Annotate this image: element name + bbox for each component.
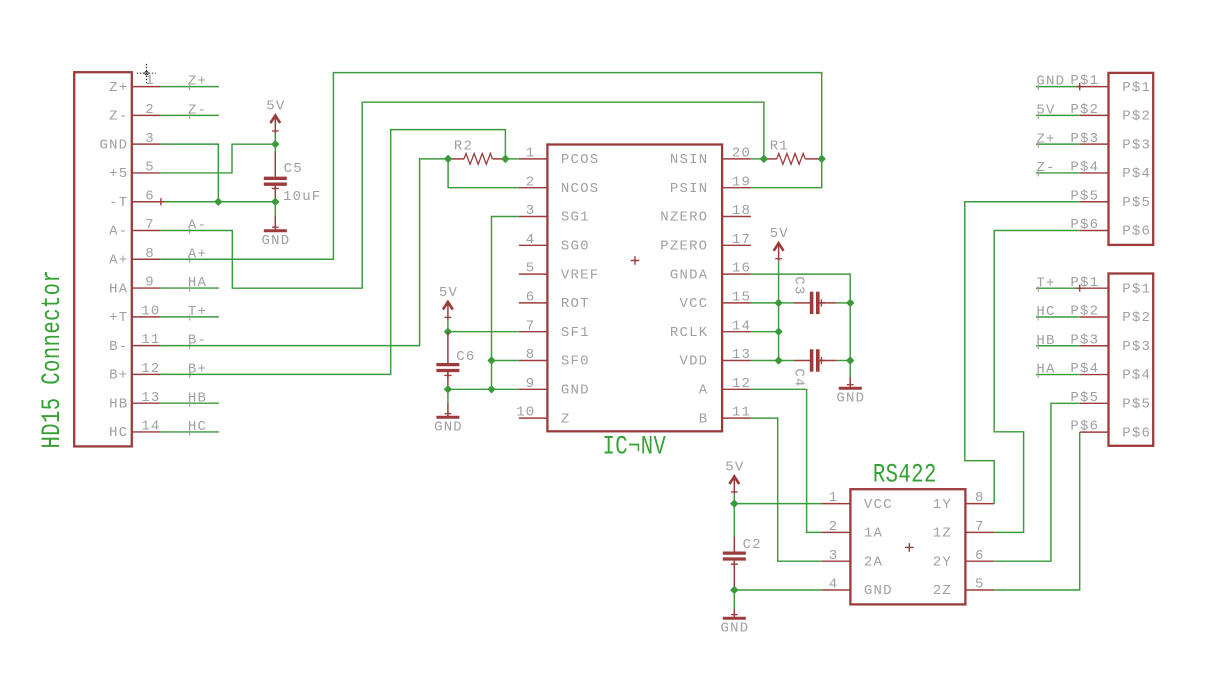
svg-text:2Y: 2Y (933, 554, 952, 570)
IC pin 17 (PZERO) (660, 232, 751, 255)
IC pin 13 (VDD) (679, 347, 751, 370)
svg-text:VCC: VCC (679, 296, 708, 312)
HD15 pin 14 (HC) (109, 419, 161, 442)
IC pin 8 (SF0) (519, 347, 590, 370)
RS422 pin 7 (1Z) (933, 519, 994, 542)
SV1 pin P$5 (1070, 188, 1151, 211)
ground symbol (C5) (262, 202, 291, 249)
junction C5 top (272, 141, 279, 148)
IC pin 16 (GNDA) (670, 261, 751, 284)
IC pin 10 (Z) (516, 405, 570, 428)
wire -T pin6 to C5 bottom (157, 198, 275, 205)
svg-text:NZERO: NZERO (660, 210, 708, 226)
SV2 pin P$3 (1070, 332, 1151, 355)
junction C6 top (444, 328, 451, 335)
svg-text:P$3: P$3 (1122, 137, 1151, 153)
IC pin 20 (NSIN) (670, 146, 751, 169)
net label B+ (188, 362, 207, 379)
IC title IC¬NV (603, 432, 667, 462)
junction VDD rail (775, 357, 782, 364)
svg-text:19: 19 (732, 174, 751, 190)
svg-text:20: 20 (732, 146, 751, 162)
net stub HB (161, 402, 219, 404)
capacitor C3 (779, 276, 851, 314)
svg-text:Z-: Z- (188, 102, 207, 118)
net label A+ (188, 246, 207, 263)
svg-text:2Z: 2Z (933, 583, 952, 599)
svg-text:Z-: Z- (109, 109, 128, 125)
connector HD15 title (38, 270, 68, 449)
svg-text:14: 14 (732, 318, 751, 334)
svg-text:5: 5 (145, 160, 155, 176)
resistor R1 (764, 138, 822, 164)
svg-text:VCC: VCC (864, 497, 893, 513)
IC pin 11 (B) (699, 405, 751, 428)
svg-text:VDD: VDD (679, 354, 708, 370)
IC pin 18 (NZERO) (660, 203, 751, 226)
IC pin 2 (NCOS) (519, 174, 599, 197)
capacitor C4 (779, 349, 851, 387)
svg-text:A+: A+ (109, 252, 128, 268)
connector HD15 body (74, 72, 132, 446)
wire SF0 pin8 link (492, 360, 519, 362)
svg-text:P$5: P$5 (1122, 397, 1151, 413)
junction VCC rail (775, 299, 782, 306)
net label HC (SV2) (1036, 304, 1055, 321)
wire VDD pin13 link (751, 360, 779, 362)
svg-text:R1: R1 (770, 138, 789, 154)
connector SV1 body (1109, 73, 1154, 245)
svg-text:P$2: P$2 (1122, 310, 1151, 326)
svg-text:T+: T+ (188, 304, 207, 320)
svg-text:5V: 5V (1036, 102, 1055, 118)
net label HA (SV2) (1036, 362, 1055, 379)
svg-text:P$6: P$6 (1122, 224, 1151, 240)
svg-text:1: 1 (829, 490, 839, 506)
svg-text:1Y: 1Y (933, 497, 952, 513)
svg-text:4: 4 (829, 577, 839, 593)
svg-text:9: 9 (145, 275, 155, 291)
svg-text:+T: +T (109, 310, 128, 326)
svg-text:-T: -T (109, 195, 128, 211)
wire GNDA pin16 to cap rail (751, 274, 850, 303)
net stub HA (161, 287, 219, 289)
wire SV1 P$6 to RS422 1Z (994, 231, 1079, 533)
svg-text:18: 18 (732, 203, 751, 219)
SV1 pin P$1 (1070, 73, 1151, 96)
svg-text:3: 3 (145, 131, 155, 147)
IC RS422 body (850, 489, 965, 604)
svg-text:Z+: Z+ (109, 80, 128, 96)
net stub Z+ (SV1) (1036, 143, 1080, 145)
pin mark SV1 P$1 (1076, 83, 1083, 90)
svg-text:8: 8 (526, 347, 536, 363)
svg-text:7: 7 (526, 318, 536, 334)
svg-text:7: 7 (975, 519, 985, 535)
net stub HA (SV2) (1036, 374, 1080, 376)
svg-text:1: 1 (526, 146, 536, 162)
junction GND pin9 riser (488, 386, 495, 393)
net label Z+ (SV1) (1036, 131, 1055, 148)
net label Z- (SV1) (1036, 160, 1055, 177)
svg-text:2A: 2A (864, 554, 883, 570)
wire B+ pin12 to R2 right node (161, 130, 506, 375)
svg-text:P$4: P$4 (1122, 166, 1151, 182)
svg-text:HB: HB (188, 390, 207, 406)
SV2 pin P$4 (1070, 361, 1151, 384)
wire IC pin20 to R1 left (751, 158, 764, 160)
power 5V (C6) (439, 285, 458, 320)
wire 5V to RS422 VCC (734, 494, 821, 503)
svg-text:17: 17 (732, 232, 751, 248)
wire C2 bottom to RS422 GND (734, 589, 821, 591)
SV2 pin P$1 (1070, 275, 1151, 298)
HD15 pin 8 (A+) (109, 246, 161, 269)
capacitor C6 (436, 332, 475, 389)
IC pin 1 (PCOS) (519, 146, 599, 169)
junction C5 bottom (272, 198, 279, 205)
net stub HB (SV2) (1036, 345, 1080, 347)
svg-text:6: 6 (526, 290, 536, 306)
net stub GND (SV1) (1036, 86, 1080, 88)
svg-text:1Z: 1Z (933, 526, 952, 542)
svg-text:2: 2 (829, 519, 839, 535)
HD15 pin 12 (B+) (109, 361, 161, 384)
wire 5V to C5 node (274, 134, 276, 145)
net label HC (188, 419, 207, 436)
wire R1 right to IC pin19 (751, 159, 822, 188)
svg-text:11: 11 (141, 332, 160, 348)
RS422 pin 4 (GND) (822, 577, 893, 600)
svg-text:HA: HA (188, 275, 207, 291)
net stub T+ (SV2) (1036, 287, 1080, 289)
IC pin 14 (RCLK) (670, 318, 751, 341)
svg-text:3: 3 (526, 203, 536, 219)
net label HB (188, 390, 207, 407)
HD15 pin 11 (B-) (109, 332, 161, 355)
svg-text:P$6: P$6 (1122, 425, 1151, 441)
wire GND pin9 link (448, 388, 519, 390)
svg-text:C5: C5 (284, 161, 303, 177)
HD15 pin 2 (Z-) (109, 102, 161, 125)
svg-text:HA: HA (1036, 362, 1055, 378)
power 5V (C5) (266, 99, 285, 134)
SV2 pin P$5 (1070, 390, 1151, 413)
HD15 pin 7 (A-) (109, 217, 161, 240)
RS422 pin 2 (1A) (822, 519, 884, 542)
svg-text:B-: B- (109, 339, 128, 355)
wire 5V rail down VCC/RCLK/VDD (778, 261, 780, 360)
svg-text:C4: C4 (790, 368, 806, 387)
junction R2 left (445, 155, 452, 162)
svg-text:P$1: P$1 (1122, 281, 1151, 297)
junction pin3 riser on -T wire (215, 198, 222, 205)
svg-text:16: 16 (732, 261, 751, 277)
svg-text:1: 1 (145, 73, 155, 89)
svg-text:5V: 5V (770, 226, 789, 242)
sheet origin marker (137, 64, 156, 83)
svg-text:5V: 5V (439, 285, 458, 301)
capacitor C2 (723, 504, 762, 589)
RS422 pin 6 (2Y) (933, 548, 994, 571)
IC pin 4 (SG0) (519, 232, 590, 255)
wire RCLK pin14 link (751, 331, 779, 333)
svg-text:HD15 Connector: HD15 Connector (38, 270, 68, 449)
svg-text:14: 14 (141, 419, 160, 435)
svg-text:RCLK: RCLK (670, 325, 708, 341)
HD15 pin 5 (+5) (109, 160, 161, 183)
net stub Z+ (161, 86, 219, 88)
svg-text:5: 5 (526, 261, 536, 277)
svg-text:SF1: SF1 (561, 325, 590, 341)
IC pin 9 (GND) (519, 376, 590, 399)
svg-text:VREF: VREF (561, 267, 599, 283)
svg-text:HB: HB (1036, 333, 1055, 349)
wire A+ pin8 to R1 right node (161, 73, 822, 260)
svg-text:GND: GND (836, 391, 865, 407)
ground symbol (C3/C4) (836, 377, 865, 407)
svg-text:HC: HC (188, 419, 207, 435)
net stub HC (161, 431, 219, 433)
svg-text:P$5: P$5 (1122, 195, 1151, 211)
svg-text:10uF: 10uF (283, 189, 321, 205)
SV2 pin P$2 (1070, 304, 1151, 327)
net label HA (188, 275, 207, 292)
svg-text:NCOS: NCOS (561, 181, 599, 197)
IC pin 7 (SF1) (519, 318, 590, 341)
ground symbol (C6) (434, 389, 463, 435)
SV2 pin P$6 (1070, 419, 1151, 442)
svg-text:PZERO: PZERO (660, 239, 708, 255)
svg-text:5: 5 (975, 577, 985, 593)
svg-text:HC: HC (1036, 304, 1055, 320)
HD15 pin 10 (+T) (109, 303, 161, 326)
svg-text:A: A (699, 383, 709, 399)
net label T+ (SV2) (1036, 275, 1055, 292)
net label GND (SV1) (1036, 74, 1065, 91)
svg-text:P$6: P$6 (1070, 419, 1099, 435)
IC pin 12 (A) (699, 376, 751, 399)
junction C4 right (847, 357, 854, 364)
svg-text:P$4: P$4 (1122, 368, 1151, 384)
wire SV2 P$6 to RS422 2Z (994, 432, 1079, 590)
junction C2 bottom (731, 587, 738, 594)
svg-text:10: 10 (516, 405, 535, 421)
IC title RS422 (873, 460, 937, 490)
svg-text:ROT: ROT (561, 296, 590, 312)
junction R2 right (502, 155, 509, 162)
IC U1 body (547, 145, 722, 432)
svg-text:5V: 5V (266, 99, 285, 115)
net stub 5V (SV1) (1036, 114, 1080, 116)
svg-text:2: 2 (145, 102, 155, 118)
svg-text:Z: Z (561, 411, 571, 427)
wire SV2 P$5 to RS422 2Y (994, 403, 1079, 561)
svg-text:B+: B+ (109, 368, 128, 384)
svg-text:HA: HA (109, 281, 128, 297)
resistor R2 (448, 138, 505, 164)
svg-text:SG1: SG1 (561, 210, 590, 226)
HD15 pin 13 (HB) (109, 390, 161, 413)
svg-text:3: 3 (829, 548, 839, 564)
svg-text:7: 7 (145, 217, 155, 233)
wire +5 pin5 to C5 top node (161, 144, 276, 173)
svg-text:GND: GND (721, 621, 750, 637)
RS422 pin 1 (VCC) (822, 490, 893, 513)
svg-text:GND: GND (262, 233, 291, 249)
junction R1 left (760, 155, 767, 162)
SV1 pin P$4 (1070, 160, 1151, 183)
svg-text:Z+: Z+ (1036, 131, 1055, 147)
wire R2 right to IC pin1 (505, 158, 519, 160)
power 5V (C3 rail) (770, 226, 789, 261)
junction C6 bottom (444, 386, 451, 393)
svg-text:NSIN: NSIN (670, 152, 708, 168)
svg-text:HB: HB (109, 396, 128, 412)
net label B- (188, 333, 207, 350)
IC pin 6 (ROT) (519, 290, 590, 313)
svg-text:C2: C2 (743, 537, 762, 553)
svg-text:9: 9 (526, 376, 536, 392)
connector SV2 body (1109, 274, 1154, 446)
svg-text:6: 6 (975, 548, 985, 564)
svg-text:RS422: RS422 (873, 460, 937, 490)
svg-text:GND: GND (434, 420, 463, 436)
IC pin 5 (VREF) (519, 261, 599, 284)
HD15 pin 6 (-T) (109, 188, 161, 211)
svg-text:P$3: P$3 (1122, 339, 1151, 355)
IC pin 3 (SG1) (519, 203, 590, 226)
net label T+ (188, 304, 207, 321)
IC pin 15 (VCC) (679, 290, 751, 313)
SV1 pin P$6 (1070, 217, 1151, 240)
net label Z- (188, 102, 207, 119)
power 5V (C2) (725, 459, 744, 494)
svg-text:GND: GND (561, 383, 590, 399)
svg-text:GND: GND (864, 583, 893, 599)
svg-text:P$1: P$1 (1122, 80, 1151, 96)
net stub T+ (161, 316, 219, 318)
svg-text:PSIN: PSIN (670, 181, 708, 197)
net stub Z- (161, 114, 219, 116)
svg-text:Z-: Z- (1036, 160, 1055, 176)
junction C2 top (731, 500, 738, 507)
svg-text:13: 13 (732, 347, 751, 363)
IC pin 19 (PSIN) (670, 174, 751, 197)
RS422 pin 5 (2Z) (933, 577, 994, 600)
net label Z+ (188, 74, 207, 91)
svg-text:C6: C6 (456, 349, 475, 365)
svg-text:11: 11 (732, 405, 751, 421)
svg-text:13: 13 (141, 390, 160, 406)
pin mark SV2 P$1 (1076, 285, 1083, 292)
svg-text:B: B (699, 411, 709, 427)
svg-text:T+: T+ (1036, 275, 1055, 291)
svg-text:+5: +5 (109, 166, 128, 182)
wire R2 left to IC pin2 (448, 159, 519, 188)
wire A- pin7 to R1 left node (161, 102, 764, 288)
wire SF1 pin7 link (448, 331, 519, 333)
svg-text:P$2: P$2 (1122, 109, 1151, 125)
wire VCC pin15 link (751, 302, 779, 304)
svg-text:6: 6 (145, 188, 155, 204)
svg-text:PCOS: PCOS (561, 152, 599, 168)
HD15 pin 1 (Z+) (109, 73, 161, 96)
wire SV1 P$5 to RS422 1Y (965, 202, 1080, 504)
HD15 pin 3 (GND) (99, 131, 160, 154)
svg-text:SF0: SF0 (561, 354, 590, 370)
net stub Z- (SV1) (1036, 172, 1080, 174)
svg-text:GND: GND (1036, 74, 1065, 90)
svg-text:SG0: SG0 (561, 239, 590, 255)
net label A- (188, 218, 207, 235)
junction SF0 (488, 357, 495, 364)
svg-text:15: 15 (732, 290, 751, 306)
net stub HC (SV2) (1036, 316, 1080, 318)
wire B pin11 to RS422 2A (751, 418, 822, 561)
svg-text:1A: 1A (864, 526, 883, 542)
junction RCLK rail (775, 328, 782, 335)
svg-text:GND: GND (99, 137, 128, 153)
capacitor C5 (264, 144, 322, 205)
junction C3 right (847, 299, 854, 306)
wire GND pin3 to C5 top (161, 144, 219, 202)
svg-text:IC¬NV: IC¬NV (603, 432, 667, 462)
svg-text:GNDA: GNDA (670, 267, 708, 283)
svg-text:10: 10 (141, 303, 160, 319)
svg-text:5V: 5V (725, 459, 744, 475)
wire A pin12 to RS422 1A (751, 389, 822, 532)
net label 5V (SV1) (1036, 102, 1055, 119)
svg-text:A-: A- (109, 224, 128, 240)
wire cap rail down (849, 303, 851, 377)
RS422 pin 3 (2A) (822, 548, 884, 571)
net label HB (SV2) (1036, 333, 1055, 350)
svg-text:C3: C3 (790, 276, 806, 295)
svg-text:12: 12 (141, 361, 160, 377)
svg-text:8: 8 (145, 246, 155, 262)
ground symbol (C2) (721, 590, 750, 637)
svg-text:2: 2 (526, 174, 536, 190)
RS422 pin 8 (1Y) (933, 490, 994, 513)
wire 5V to SF1 (447, 320, 449, 332)
svg-text:4: 4 (526, 232, 536, 248)
SV1 pin P$3 (1070, 131, 1151, 154)
svg-text:8: 8 (975, 490, 985, 506)
SV1 pin P$2 (1070, 102, 1151, 125)
svg-text:HC: HC (109, 425, 128, 441)
svg-text:R2: R2 (454, 138, 473, 154)
wire B- pin11 to R2 left node (161, 159, 449, 346)
HD15 pin 9 (HA) (109, 275, 161, 298)
svg-text:Z+: Z+ (188, 74, 207, 90)
junction R1 right (818, 155, 825, 162)
svg-text:12: 12 (732, 376, 751, 392)
wire SG1 pin3 riser (492, 217, 519, 390)
